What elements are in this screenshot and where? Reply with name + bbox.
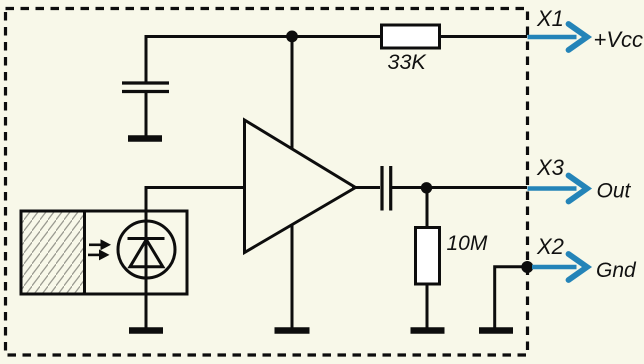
ground (X2) xyxy=(479,327,513,334)
svg-text:33K: 33K xyxy=(388,50,428,74)
node: X2 junction dot xyxy=(521,261,533,273)
capacitor C1 (decoupling) xyxy=(122,83,169,92)
light arrow 2 xyxy=(88,249,110,260)
capacitor C2 (output coupling) xyxy=(382,166,391,211)
svg-text:+Vcc: +Vcc xyxy=(594,27,644,52)
svg-text:Gnd: Gnd xyxy=(596,259,637,282)
hatched window region xyxy=(23,213,84,293)
resistor R1 33K xyxy=(382,25,440,48)
svg-text:10M: 10M xyxy=(447,232,488,255)
ground (R2) xyxy=(411,327,445,334)
wire: amplifier output to C2 xyxy=(352,186,380,189)
wire: Vcc rail right segment (resistor to X1) xyxy=(440,35,528,38)
D1 triangle (anode) xyxy=(130,240,163,267)
ground (C1) xyxy=(128,135,162,142)
svg-text:X1: X1 xyxy=(536,6,564,31)
wire: output node to R2 xyxy=(426,188,429,228)
wire: C2 to output node xyxy=(392,186,527,189)
wire: amplifier supply vertical xyxy=(291,37,294,329)
wire: photodiode branch vertical xyxy=(145,186,148,328)
wire: amplifier input xyxy=(146,186,244,189)
wire: Vcc rail left segment xyxy=(146,35,382,38)
wire: C1 top lead xyxy=(145,35,148,82)
ground (U1 supply return) xyxy=(275,327,310,334)
photodiode D1 circle xyxy=(118,221,175,278)
resistor R2 10M xyxy=(416,228,440,285)
D1 cathode bar xyxy=(128,237,165,240)
photodiode module box xyxy=(21,211,187,294)
terminal X1 arrow xyxy=(528,24,588,50)
op-amp U1 (buffer triangle) xyxy=(245,120,356,253)
terminal X2 arrow xyxy=(532,254,587,280)
window divider line xyxy=(83,211,86,294)
wire: C1 bottom lead xyxy=(145,92,148,136)
node: output junction dot xyxy=(421,182,432,193)
light arrow 1 xyxy=(89,239,111,250)
wire: R2 to ground xyxy=(426,284,429,329)
svg-text:X2: X2 xyxy=(536,234,564,259)
module boundary (dashed enclosure) xyxy=(6,9,528,356)
terminal X3 arrow xyxy=(528,176,588,202)
svg-text:X3: X3 xyxy=(536,155,565,180)
node: Vcc junction dot xyxy=(286,31,298,43)
svg-text:Out: Out xyxy=(597,180,632,203)
wire: X2 ground link xyxy=(495,267,526,328)
ground (D1) xyxy=(129,327,163,334)
